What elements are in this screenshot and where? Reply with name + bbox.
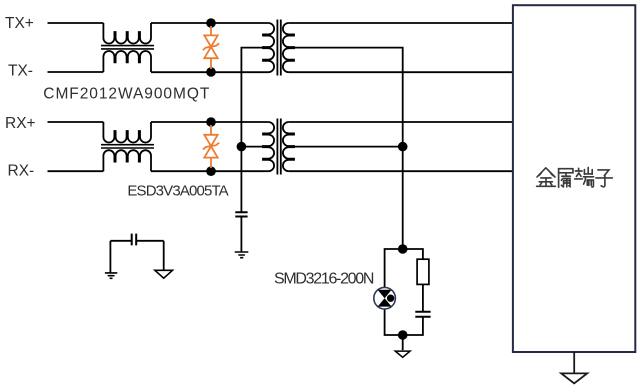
svg-text:ESD3V3A005TA: ESD3V3A005TA [127,183,228,200]
junction dot TX+ ESD [206,18,216,28]
svg-text:TX+: TX+ [5,15,34,32]
junction dot RX+ ESD [206,117,216,127]
fuse F1 dot [387,295,394,302]
wire C2 left down [109,241,111,273]
wire TX+ choke to transformer [151,22,268,24]
ground triangle SMD [395,351,410,357]
wire T1 left center tap [241,48,263,147]
ESD diode D2 bottom triangle [204,146,217,157]
wire RX- choke to transformer [151,170,268,172]
common-mode choke L1 bottom winding [103,51,151,72]
wire T1 right center tap [294,48,403,249]
ESD diode D2 stubs [210,125,212,168]
glyph zi [596,170,612,187]
wire RX+ choke to transformer [151,121,268,123]
glyph shu [559,169,573,188]
chassis ground below box wire [573,352,575,373]
fuse F1 circle [374,287,396,309]
junction dot RX- ESD [206,166,216,176]
ESD diode D1 bottom triangle [204,47,217,58]
wire C3 down [403,317,423,335]
label 金属端子 (drawn glyphs) [537,168,613,188]
wire T1 right top to box [289,22,513,24]
wire T2 right center tap [294,146,403,148]
svg-text:RX-: RX- [8,162,35,179]
wire left tap junction down to C1 [240,147,242,252]
transformer T2 right winding [283,122,294,171]
wire below bottom node [402,335,404,350]
resistor R1 [417,259,429,284]
glyph jin [537,168,556,187]
earth ground under C1 [235,252,249,258]
wire TX+ left [48,22,104,24]
transformer T1 right winding [283,23,294,72]
transformer T2 left winding [263,122,274,171]
wire SMD top node right [403,249,423,259]
ESD diode D2 top triangle [204,135,217,146]
transformer T1 left winding [263,23,274,72]
fuse F1 top triangle [378,290,392,298]
capacitor C2 (left RC) wire [110,240,163,242]
junction dot SMD bottom [398,330,408,340]
junction dot right tap [398,142,408,152]
ESD diode D2 zener bar [203,143,219,150]
capacitor C1 plates [235,212,247,216]
transformer T2 core lines [277,119,280,175]
wire RX- left [48,170,104,172]
glyph duan [575,168,594,188]
wire RX+ left [48,121,104,123]
signal ground triangle left [155,270,173,278]
svg-text:SMD3216-200N: SMD3216-200N [274,271,374,288]
common-mode choke L1 top winding [103,23,151,44]
capacitor C2 plates [132,234,137,246]
wire T1 right bottom to box [289,71,513,73]
metal terminal box [513,5,635,352]
wire TX- left [48,71,104,73]
svg-text:TX-: TX- [8,63,33,80]
transformer T1 core lines [277,20,280,76]
junction dot SMD top [398,244,408,254]
capacitor C3 plates [415,312,430,317]
wire T2 right bottom to box [289,170,513,172]
fuse F1 bottom triangle [378,298,392,306]
choke L1 core lines [101,46,154,49]
junction dot left tap [237,142,247,152]
common-mode choke L2 bottom winding [103,150,151,171]
junction dot TX- ESD [206,67,216,77]
wire R1 to C3 [422,284,424,311]
svg-text:CMF2012WA900MQT: CMF2012WA900MQT [43,85,210,102]
wire F1 down [385,309,403,335]
common-mode choke L2 top winding [103,122,151,143]
wire TX- choke to transformer [151,71,268,73]
wire T2 left center tap [241,146,263,148]
ESD diode D1 top triangle [204,35,217,46]
svg-text:RX+: RX+ [5,115,36,132]
wire C2 right down [163,241,165,270]
wire SMD top node left [385,249,403,287]
earth ground left [105,273,117,278]
wire T2 right top to box [289,121,513,123]
choke L2 core lines [101,145,154,148]
ESD diode D1 zener bar [203,43,219,50]
chassis ground below box triangle [561,373,587,383]
ESD diode D1 stubs [210,26,212,69]
